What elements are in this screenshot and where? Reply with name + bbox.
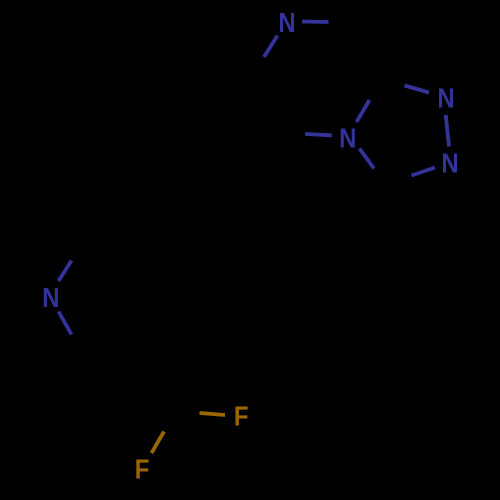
svg-text:N: N	[437, 84, 454, 114]
svg-text:N: N	[278, 8, 295, 38]
wire bond C-F2 stub	[152, 432, 165, 454]
wire bond N4a-C3 stub	[360, 149, 375, 169]
wire bond N7-C6 stub	[264, 36, 278, 58]
svg-text:F: F	[135, 455, 150, 485]
wire bond N1-N2	[446, 115, 449, 147]
svg-text:N: N	[42, 283, 59, 313]
wire bond N4a-C8a stub	[357, 100, 370, 122]
wire bond C-F1 stub	[200, 413, 226, 415]
wire bond N2-C3 stub	[412, 168, 436, 176]
wire bond C8a-N1 stub	[405, 86, 430, 93]
svg-text:N: N	[339, 124, 356, 154]
wire bond Npy-C6 stub	[59, 312, 72, 335]
wire bond N4a-C5 stub	[305, 134, 332, 135]
svg-text:N: N	[441, 149, 458, 179]
wire bond Npy-C2 stub	[59, 261, 72, 282]
svg-text:F: F	[234, 402, 249, 432]
wire bond N7-C8 stub	[302, 20, 329, 24]
